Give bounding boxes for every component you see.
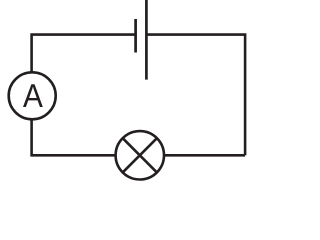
ammeter A: letter label (Liberation Sans capital A outline): [23, 84, 43, 107]
lamp: cross diagonal 2: [123, 138, 157, 172]
lamp: circle: [116, 131, 164, 179]
ammeter A: circle: [9, 72, 56, 119]
wire bottom-left segment: [32, 121, 115, 156]
battery cell: short negative plate: [134, 19, 137, 53]
wire top-left segment: [32, 35, 136, 72]
wire bottom-right segment: [165, 154, 245, 157]
battery cell: long positive plate: [145, 0, 148, 80]
lamp: cross diagonal 1: [123, 138, 157, 172]
wire top-right segment: [146, 35, 245, 156]
